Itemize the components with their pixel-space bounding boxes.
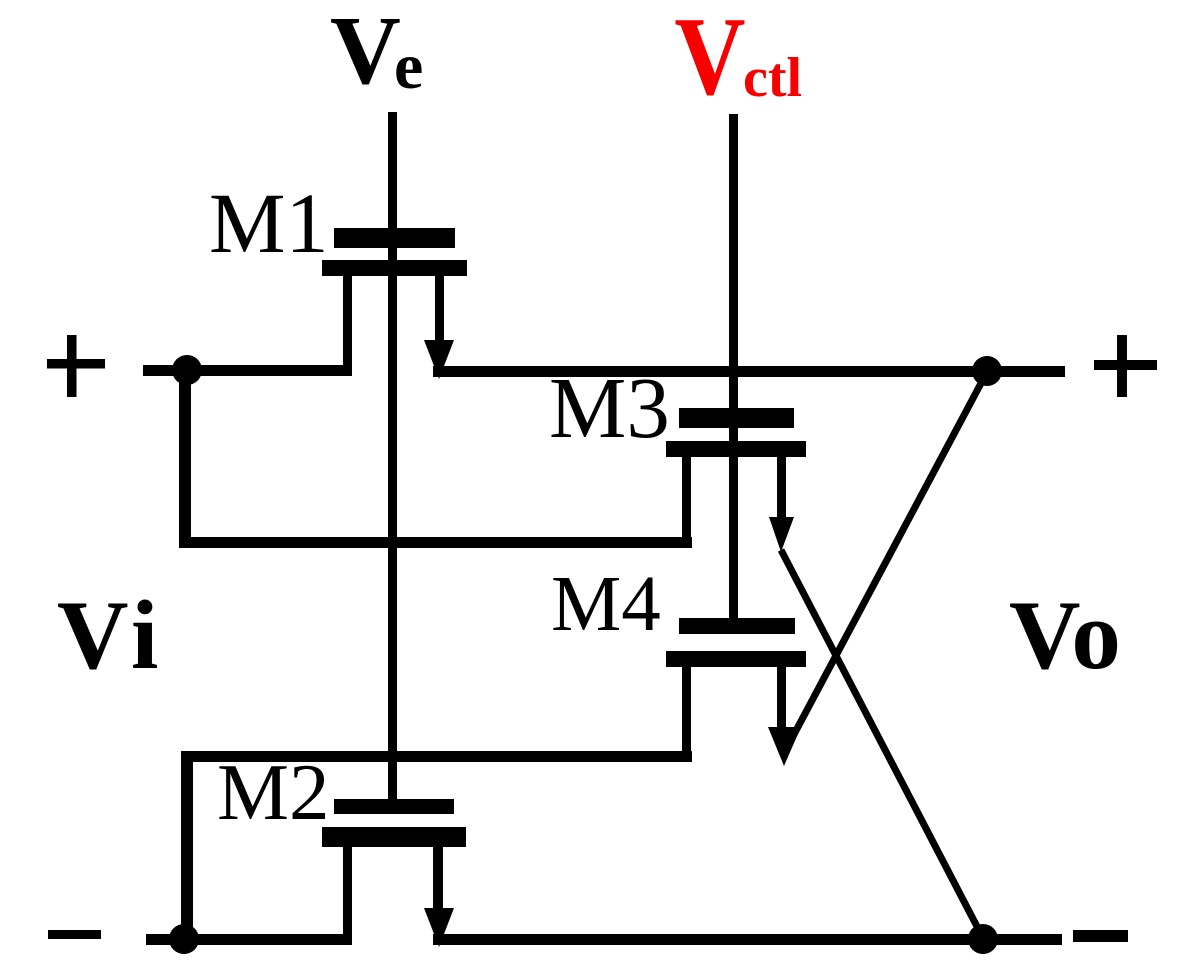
svg-text:M1: M1 xyxy=(209,175,328,271)
wire bottom rail right segment (M2 drain to - terminal) xyxy=(433,934,1062,945)
node junction dot bottom-right xyxy=(968,924,998,954)
svg-text:ctl: ctl xyxy=(743,47,802,109)
svg-text:V: V xyxy=(674,0,745,118)
wire Vctl vertical xyxy=(729,114,738,618)
terminal minus right xyxy=(1073,930,1128,942)
wire diagonal cross (M3 drain to bottom-right dot) xyxy=(781,550,983,938)
transistor M1 xyxy=(322,228,467,379)
wire Ve vertical xyxy=(388,112,397,800)
wire top rail right segment (M1 drain to + terminal) xyxy=(433,366,1065,377)
terminal plus right xyxy=(1094,335,1157,397)
svg-text:V: V xyxy=(330,0,401,105)
svg-text:Vi: Vi xyxy=(57,581,164,690)
transistor M4 xyxy=(666,618,806,766)
node junction dot top-right xyxy=(972,356,1002,386)
svg-text:M4: M4 xyxy=(551,561,661,648)
wire middle loop (top-left dot down to M3 source) xyxy=(179,371,692,548)
node Ve label xyxy=(330,0,423,105)
terminal plus left xyxy=(47,335,105,397)
transistor M2 xyxy=(322,799,466,947)
node Vctl label xyxy=(674,0,802,118)
svg-text:Vo: Vo xyxy=(1009,581,1121,690)
wire bottom rail left segment (- terminal to M2 source) xyxy=(146,934,352,945)
wire lower loop (M4 source to bottom-left dot) xyxy=(181,751,692,940)
terminal minus left xyxy=(48,930,101,939)
svg-text:e: e xyxy=(394,30,423,103)
svg-text:M3: M3 xyxy=(549,359,670,456)
wire top rail left segment (+ terminal to M1 source) xyxy=(143,365,352,376)
transistor M3 xyxy=(666,408,806,552)
node junction dot top-left xyxy=(172,355,202,385)
node junction dot bottom-left xyxy=(169,924,199,954)
wire diagonal cross (top-right dot to M4 drain) xyxy=(791,372,987,740)
